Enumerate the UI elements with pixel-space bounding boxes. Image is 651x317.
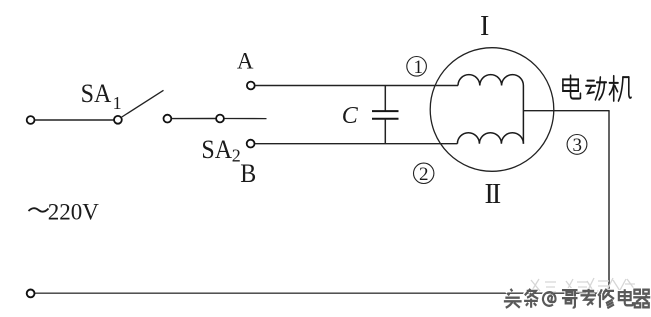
terminal left top (L) <box>27 116 35 124</box>
node 1 circled <box>407 57 427 78</box>
label ~220V <box>29 199 100 224</box>
svg-text:2: 2 <box>419 164 429 185</box>
faint char wei <box>566 279 589 292</box>
switch SA2 pole <box>216 115 224 123</box>
wm char qi <box>632 289 649 307</box>
faint char ren <box>606 278 620 292</box>
wm char ge <box>561 289 577 306</box>
wire right vertical down <box>608 111 610 293</box>
svg-text:C: C <box>342 103 359 129</box>
wire winding common vertical <box>522 86 524 144</box>
capacitor C top stem <box>384 86 386 112</box>
label motor (dian dong ji) hand-drawn <box>563 75 631 101</box>
capacitor C bottom stem <box>384 119 386 144</box>
svg-text:SA: SA <box>201 134 232 165</box>
wire L to SA1 pole <box>35 119 114 121</box>
char dian <box>563 75 581 98</box>
faint char xiu <box>587 278 610 292</box>
capacitor C top plate <box>372 110 399 112</box>
svg-text:1: 1 <box>414 57 424 78</box>
motor circle <box>430 48 554 172</box>
char dong <box>586 77 606 100</box>
svg-text:B: B <box>240 158 256 189</box>
terminal left bottom (N) <box>27 290 35 298</box>
svg-text:220V: 220V <box>48 199 100 224</box>
wm char zhuan <box>579 288 595 304</box>
svg-text:3: 3 <box>573 135 583 156</box>
terminal A <box>247 82 255 90</box>
wire B to winding II <box>255 143 457 145</box>
switch SA1 blade (open) <box>122 90 164 117</box>
svg-text:II: II <box>485 179 501 210</box>
svg-text:A: A <box>237 49 254 74</box>
capacitor C bottom plate <box>372 118 399 120</box>
winding II (bottom coil) <box>457 133 523 144</box>
terminal B <box>247 140 255 148</box>
faint mark 1 <box>531 279 556 292</box>
node 3 circled <box>567 135 587 157</box>
winding I (top coil) <box>458 75 523 86</box>
wm at sign <box>542 291 555 305</box>
watermark faint weixiu renjia <box>531 278 635 292</box>
wm emboss highlight <box>504 289 522 308</box>
wm char xiu <box>597 288 613 307</box>
wm char tiao <box>523 288 537 307</box>
wire motor output to right <box>523 110 609 112</box>
svg-text:1: 1 <box>113 93 122 113</box>
wire SA1 contact to SA2 pole <box>172 118 216 120</box>
wire A to winding I <box>255 85 458 87</box>
switch SA2 blade (mid position) <box>224 118 266 120</box>
svg-text:SA: SA <box>81 78 112 109</box>
watermark toutiao at-name (embossed) <box>503 288 650 308</box>
node 2 circled <box>414 163 434 185</box>
switch SA1 contact <box>164 115 172 123</box>
wm char tou <box>503 288 521 307</box>
svg-text:I: I <box>480 11 489 42</box>
faint char jia <box>619 279 635 292</box>
char ji <box>609 76 631 101</box>
wm char dian2 <box>618 288 632 304</box>
wire bottom return <box>35 292 610 294</box>
switch SA1 pole <box>114 116 122 124</box>
